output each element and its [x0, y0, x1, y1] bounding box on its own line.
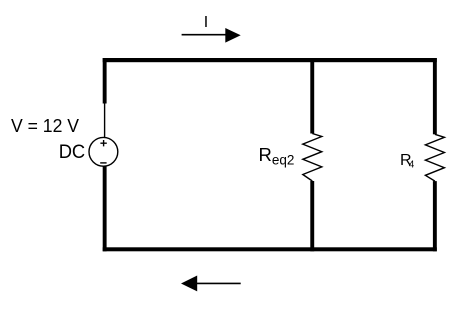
return current arrow: shaft (bottom) — [197, 282, 241, 284]
wire bottom (node D to node C) — [103, 247, 437, 251]
wire top (node A to node B) — [103, 58, 437, 62]
current arrow I: head (top, pointing right) — [225, 28, 240, 43]
voltage source V1 (DC, 12 V) — [89, 137, 118, 166]
wire left lower segment — [103, 166, 107, 252]
current arrow I: shaft (top) — [182, 34, 227, 36]
wire left upper segment — [103, 58, 107, 104]
svg-text:DC: DC — [59, 142, 85, 163]
wire lead above source (thin) — [104, 103, 106, 138]
wire right lower segment — [433, 181, 437, 251]
wire middle upper segment — [310, 58, 314, 134]
svg-text:I: I — [204, 14, 208, 31]
wire right upper segment — [433, 58, 437, 134]
svg-text:Req2: Req2 — [259, 144, 295, 168]
svg-text:V = 12 V: V = 12 V — [11, 115, 80, 136]
return current arrow: head (bottom, pointing left) — [181, 276, 197, 292]
resistor Req2 zigzag — [303, 134, 322, 182]
+ terminal of V1 — [100, 140, 106, 146]
- terminal of V1 — [100, 162, 106, 164]
resistor R4 zigzag — [425, 134, 444, 181]
wire middle lower segment — [310, 181, 314, 251]
svg-text:4: 4 — [409, 160, 415, 171]
